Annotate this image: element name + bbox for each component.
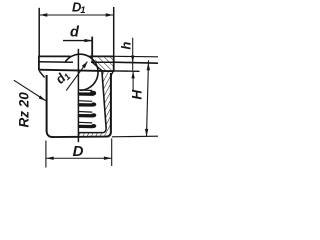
extension line D right (111, 139, 113, 167)
arrowhead h up (131, 71, 134, 78)
extension line D1 left (38, 8, 40, 57)
dimension line H (147, 60, 149, 136)
top surface left segment (38, 55, 70, 57)
arrowhead H up (147, 63, 150, 70)
svg-text:D: D (73, 143, 84, 160)
hatch body wall and bottom section (78, 71, 110, 136)
seat line left segment (39, 61, 73, 64)
spring coil 3 (78, 112, 96, 118)
extension line d (91, 37, 93, 57)
dimension line D1 (40, 14, 113, 16)
arrowhead H down (145, 129, 148, 137)
svg-text:h: h (118, 42, 133, 50)
bottom right corner (106, 132, 111, 137)
arrowhead D1 right (106, 13, 114, 16)
dimension line h (132, 38, 134, 70)
bottom left corner (47, 131, 53, 138)
cone seat line (92, 63, 102, 71)
hatch flange lower right section (94, 63, 113, 70)
arrowhead d (85, 39, 93, 42)
extension line top surface right (114, 55, 158, 57)
spring coil 1 (78, 90, 96, 96)
spring coil 2 (78, 101, 96, 107)
svg-text:Rz 20: Rz 20 (17, 92, 32, 128)
leader d1 (66, 62, 87, 91)
extension line bottom right (112, 135, 158, 138)
body right outer wall (110, 73, 112, 132)
hatch flange upper right section (95, 57, 113, 62)
arrowhead h down (131, 56, 134, 63)
svg-text:d: d (70, 24, 80, 40)
flange right edge (113, 56, 115, 71)
flange left edge (38, 56, 40, 70)
svg-text:1: 1 (80, 5, 85, 16)
ball d1 (65, 54, 98, 90)
top surface right segment (90, 55, 115, 57)
arrowhead D right (104, 157, 112, 160)
spring coil 4 (78, 122, 96, 128)
arrowhead Rz20 (39, 95, 46, 100)
extension line seat right (114, 62, 158, 63)
leader Rz20 (14, 80, 46, 100)
body left wall (46, 75, 48, 132)
centerline (77, 49, 79, 142)
extension line flange bottom right (114, 70, 140, 72)
chamfer under flange left (39, 71, 44, 78)
flange bottom line (38, 70, 114, 72)
hole right edge (91, 56, 93, 62)
label d1 rotated (52, 67, 72, 87)
seat line right segment (91, 61, 114, 63)
arrowhead D left (46, 157, 54, 160)
dimension line D (46, 157, 111, 159)
extension line D left (45, 141, 47, 168)
h lower arrow tail (132, 71, 134, 90)
inner wall (102, 71, 106, 129)
extension line D1 right (113, 7, 115, 56)
inner bottom (78, 129, 106, 133)
chamfer under flange right (111, 71, 113, 76)
bottom line (52, 136, 106, 139)
dimension line d (63, 40, 92, 42)
svg-text:H: H (130, 90, 145, 100)
arrowhead D1 left (40, 13, 48, 16)
arrowhead d1 (82, 62, 88, 69)
